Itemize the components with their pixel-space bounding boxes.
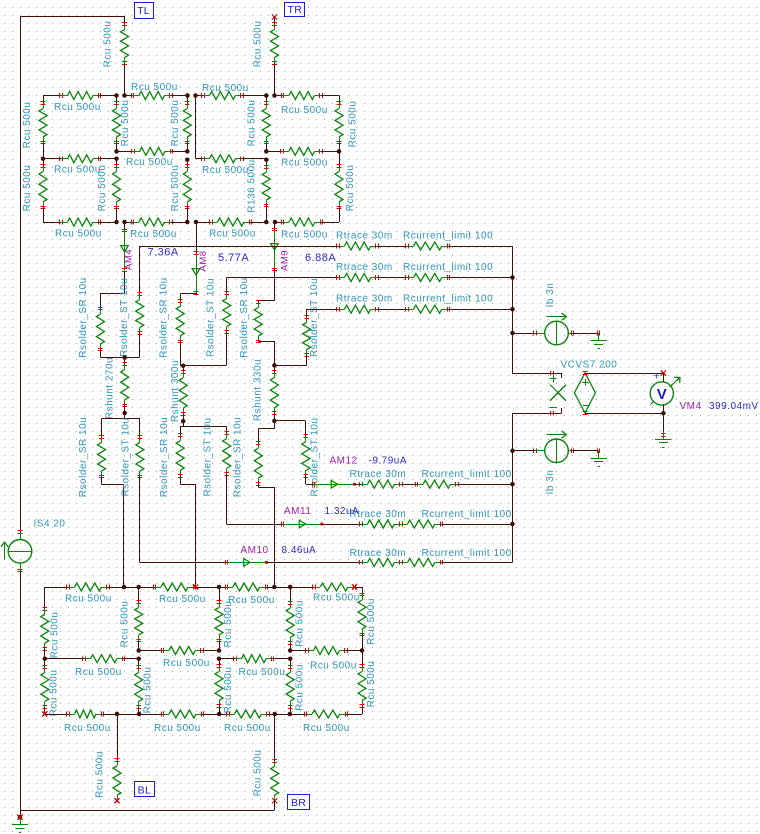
wire bottom rail bbox=[20, 810, 275, 812]
svg-text:Rcu 500u: Rcu 500u bbox=[366, 661, 377, 708]
svg-text:Rcu 500u: Rcu 500u bbox=[223, 667, 234, 714]
resistor Rsolder_SR 10u (col1 upper-left) bbox=[78, 277, 104, 357]
resistor Rcu 500u (col B upper) bbox=[22, 96, 47, 159]
junction rail row3 bbox=[510, 307, 515, 312]
resistor Rcu 500u (row3 d) bbox=[275, 218, 339, 241]
value 6.88A bbox=[305, 252, 336, 264]
wire Ib top to ground bbox=[572, 331, 599, 336]
label VM4 bbox=[680, 401, 702, 412]
wire right rail upper bbox=[512, 246, 514, 373]
junction bgrid T E bbox=[272, 585, 292, 590]
svg-text:Rcu 500u: Rcu 500u bbox=[75, 667, 122, 678]
svg-text:Rcu 500u: Rcu 500u bbox=[130, 229, 177, 240]
label BR column resistor bbox=[253, 750, 264, 797]
svg-text:7.36A: 7.36A bbox=[148, 247, 179, 259]
resistor Rsolder_ST 10u (col3 lower-right) bbox=[302, 417, 321, 496]
junction rail AM12 bbox=[510, 482, 515, 487]
svg-text:Rshunt 270u: Rshunt 270u bbox=[105, 357, 116, 419]
wire AM4 to col1 bbox=[101, 271, 125, 294]
svg-text:Rcu 500u: Rcu 500u bbox=[65, 594, 112, 605]
svg-text:VM4: VM4 bbox=[680, 401, 702, 412]
resistor Rcu 500u (col F upper) bbox=[335, 96, 359, 152]
resistor Rcu 500u (row2 c) bbox=[196, 155, 267, 176]
value 5.77A bbox=[218, 252, 249, 264]
label Rtrace 30m (AM11) bbox=[350, 509, 407, 520]
vcvs VCVS7 control plus bbox=[549, 375, 556, 382]
resistor Rsolder_ST 10u (col2 lower-right) bbox=[203, 417, 231, 524]
wire col1 upper-right to node bbox=[125, 357, 140, 359]
wire left rail lower bbox=[20, 571, 22, 810]
node X bgrid T col2 bbox=[193, 584, 219, 589]
resistor Rcu 500u (TR column) bbox=[253, 17, 279, 96]
svg-text:Rcu 500u: Rcu 500u bbox=[209, 229, 256, 240]
svg-text:Rcu 500u: Rcu 500u bbox=[313, 593, 360, 604]
resistor Rcu 500u (bgrid T c) bbox=[219, 583, 275, 606]
resistor Rcu 500u (col D upper) bbox=[170, 96, 191, 152]
svg-text:Rcu 500u: Rcu 500u bbox=[224, 723, 271, 734]
resistor Rcu 500u (bgrid vD upper) bbox=[215, 587, 234, 651]
vcvs VCVS7 200 diamond bbox=[561, 359, 618, 413]
svg-text:Rcu 500u: Rcu 500u bbox=[95, 751, 106, 798]
svg-text:Rcu 500u: Rcu 500u bbox=[295, 664, 306, 711]
svg-text:Rcu 500u: Rcu 500u bbox=[310, 661, 357, 672]
svg-text:399.04mV: 399.04mV bbox=[709, 401, 759, 412]
resistor Rcu 500u (bgrid M1 right) bbox=[290, 647, 362, 672]
wire col2 upper-left to node bbox=[180, 365, 183, 367]
ground (bottom left) bbox=[12, 810, 28, 833]
svg-text:Rsolder_SR 10u: Rsolder_SR 10u bbox=[159, 417, 170, 497]
ground (Ib bottom) bbox=[590, 451, 606, 467]
resistor Rcu 500u (row1 c) bbox=[196, 83, 267, 100]
resistor Rsolder_SR 10u (col1 lower-left) bbox=[78, 417, 106, 497]
wire col2 T-split bbox=[180, 421, 227, 426]
resistor Rcu 500u (row2 mid) bbox=[117, 147, 188, 168]
resistor Rsolder_ST 10u (col1 upper-right) bbox=[119, 246, 144, 358]
svg-text:Rcu 500u: Rcu 500u bbox=[126, 157, 173, 168]
resistor Rcu 500u (bgrid B d) bbox=[290, 710, 362, 734]
junction col3 mid bbox=[272, 363, 277, 368]
label AM10 bbox=[241, 545, 269, 556]
resistor Rsolder_ST 10u (col2 upper-right) bbox=[206, 278, 231, 366]
svg-text:Rcu 500u: Rcu 500u bbox=[253, 750, 264, 797]
label Rtrace 30m (AM10) bbox=[350, 548, 407, 559]
svg-text:Rcu 500u: Rcu 500u bbox=[281, 158, 328, 169]
svg-text:Rcu 500u: Rcu 500u bbox=[50, 612, 61, 659]
wire VCVS output bottom bbox=[583, 412, 664, 415]
resistor Rcu 500u (bgrid B a) bbox=[45, 710, 117, 734]
resistor Rcu 500u (row3 b) bbox=[125, 218, 188, 240]
svg-text:Rcu 500u: Rcu 500u bbox=[163, 658, 210, 669]
node BL bbox=[135, 782, 155, 797]
svg-text:Rcu 500u: Rcu 500u bbox=[281, 105, 328, 116]
resistor Rcu 500u (bgrid T b) bbox=[139, 583, 206, 605]
value 8.46uA bbox=[282, 545, 317, 556]
resistor Rtrace 30m (sense row1) bbox=[336, 231, 393, 251]
resistor Rcu 500u (bgrid M2 left) bbox=[45, 655, 139, 678]
svg-text:AM8: AM8 bbox=[198, 250, 209, 271]
junction rail row2 bbox=[510, 275, 515, 280]
svg-text:Rcu 500u: Rcu 500u bbox=[120, 601, 131, 648]
resistor Rcu 500u (TL column) bbox=[103, 16, 129, 96]
resistor Rcu 500u (bgrid T a) bbox=[45, 583, 125, 605]
wire AM9 to col3 bbox=[259, 270, 275, 301]
wire VM to ground bbox=[661, 413, 666, 436]
svg-text:AM9: AM9 bbox=[280, 250, 291, 271]
resistor Rsolder_ST 10u (col3 upper-right) bbox=[303, 278, 320, 365]
svg-text:Rsolder_ST 10u: Rsolder_ST 10u bbox=[120, 417, 131, 496]
junction dots row2 bbox=[41, 149, 342, 162]
svg-text:Rshunt 300u: Rshunt 300u bbox=[170, 360, 181, 422]
wire VCVS control top bbox=[513, 371, 562, 378]
wire VCVS output top bbox=[583, 371, 666, 376]
junction bgrid T D2 bbox=[217, 585, 222, 590]
svg-text:Rcu 500u: Rcu 500u bbox=[253, 21, 264, 68]
junction dots row1 bbox=[114, 93, 277, 98]
ground (Ib top) bbox=[590, 333, 606, 349]
svg-text:TR: TR bbox=[287, 4, 302, 16]
svg-text:AM11: AM11 bbox=[284, 506, 311, 517]
svg-text:Rsolder_SR 10u: Rsolder_SR 10u bbox=[78, 277, 89, 357]
junction rail AM11 bbox=[510, 522, 515, 527]
current source IS4 20 bbox=[1, 519, 65, 572]
resistor Rcurrent_limit 100 (sense row2) bbox=[403, 262, 493, 282]
wire sense row3 bbox=[307, 309, 338, 311]
junction rail Ib bottom bbox=[510, 449, 515, 454]
junction col1 low bbox=[122, 411, 127, 416]
svg-text:Rcu 500u: Rcu 500u bbox=[97, 165, 108, 212]
svg-text:AM12: AM12 bbox=[330, 456, 358, 467]
resistor Rcu 500u (bgrid vF lower) bbox=[358, 651, 377, 715]
wire row2 mid bbox=[377, 277, 407, 279]
resistor Rcu 500u (bgrid vC lower) bbox=[135, 659, 154, 714]
svg-text:Rcu 500u: Rcu 500u bbox=[303, 723, 350, 734]
resistor Rcu 500u (row2 left) bbox=[43, 155, 117, 176]
svg-text:Rcu 500u: Rcu 500u bbox=[170, 100, 181, 147]
svg-text:6.88A: 6.88A bbox=[305, 252, 336, 264]
wire Ib bottom to ground bbox=[572, 449, 599, 454]
ground (VM4) bbox=[655, 432, 671, 448]
wire row3 to rail bbox=[448, 309, 512, 311]
svg-text:Rcurrent_limit 100: Rcurrent_limit 100 bbox=[422, 548, 512, 559]
node X bgrid B left bbox=[42, 711, 47, 716]
svg-text:Rcurrent_limit 100: Rcurrent_limit 100 bbox=[422, 469, 512, 480]
resistor Rsolder_ST 10u (col1 lower-right) bbox=[120, 417, 144, 562]
junction dots row3 bbox=[114, 220, 277, 225]
resistor Rcu 500u (row3 a) bbox=[43, 218, 117, 240]
resistor Rcu 500u (bgrid B b) bbox=[139, 710, 219, 734]
svg-text:Rcu 500u: Rcu 500u bbox=[54, 165, 101, 176]
svg-text:Rcu 500u: Rcu 500u bbox=[348, 101, 359, 148]
resistor Rcu 500u (bgrid T d) bbox=[290, 583, 362, 604]
wire VCVS control bottom bbox=[513, 408, 562, 415]
resistor Rsolder_SR 10u (col3 upper-left) bbox=[239, 277, 262, 357]
ammeter AM8 bbox=[192, 222, 209, 295]
label Rcurrent_limit 100 (AM12) bbox=[422, 469, 512, 480]
label Rcurrent_limit 100 (AM11) bbox=[422, 509, 512, 520]
wire col1 upper-left to node bbox=[100, 357, 124, 359]
svg-text:Rtrace 30m: Rtrace 30m bbox=[336, 231, 393, 242]
svg-text:Rsolder_SR 10u: Rsolder_SR 10u bbox=[78, 417, 89, 497]
wire col1 T-split bbox=[102, 414, 140, 419]
svg-text:Rcu 500u: Rcu 500u bbox=[154, 723, 201, 734]
svg-text:Rsolder_ST 10u: Rsolder_ST 10u bbox=[203, 417, 214, 496]
resistor Rcu 500u (row2 d) bbox=[266, 147, 339, 168]
svg-text:Rtrace 30m: Rtrace 30m bbox=[350, 469, 407, 480]
wire col2 upper-right to node bbox=[183, 365, 227, 367]
svg-text:Rcu 500u: Rcu 500u bbox=[281, 230, 328, 241]
resistor Rcu 500u (bgrid B c) bbox=[219, 710, 275, 734]
wire sense row2 bbox=[227, 277, 338, 279]
svg-text:Rcu 500u: Rcu 500u bbox=[22, 102, 33, 149]
wire col3 upper-right to node bbox=[274, 365, 306, 367]
ammeter AM12 row bbox=[306, 480, 513, 488]
wire col D2 bbox=[195, 96, 197, 159]
value 1.32uA bbox=[325, 506, 360, 517]
ammeter AM10 row bbox=[140, 558, 513, 566]
wire to Ib bottom bbox=[513, 449, 546, 454]
svg-text:Rsolder_SR 10u: Rsolder_SR 10u bbox=[239, 277, 250, 357]
svg-text:Ib 3n: Ib 3n bbox=[545, 470, 556, 495]
svg-text:AM10: AM10 bbox=[241, 545, 269, 556]
svg-text:Rtrace 30m: Rtrace 30m bbox=[350, 548, 407, 559]
wire bgrid T cd bbox=[274, 587, 290, 589]
resistor Rcurrent_limit 100 (sense row1) bbox=[403, 231, 493, 251]
svg-text:Rshunt 330u: Rshunt 330u bbox=[253, 359, 264, 421]
resistor Rsolder_SR 10u (col2 lower-left) bbox=[159, 417, 184, 497]
wire col3 feed to bottom grid bbox=[259, 488, 275, 587]
svg-text:Rcu 500u: Rcu 500u bbox=[345, 165, 356, 212]
vcvs VCVS7 control minus bbox=[550, 407, 557, 409]
resistor Rcu 500u (row3 c) bbox=[196, 218, 266, 240]
label Rtrace 30m (AM12) bbox=[350, 469, 407, 480]
resistor Rcu 500u (bgrid vC upper) bbox=[120, 587, 143, 651]
ammeter AM11 row bbox=[227, 520, 513, 528]
junction col3 low bbox=[272, 419, 277, 424]
resistor Rcu 500u (col C upper) bbox=[113, 96, 132, 152]
svg-text:Rcurrent_limit 100: Rcurrent_limit 100 bbox=[403, 231, 493, 242]
svg-text:Rcu 500u: Rcu 500u bbox=[64, 723, 111, 734]
resistor Rsolder_SR 10u (col2 upper-left) bbox=[159, 277, 185, 365]
resistor Rsolder_SR 10u (col3 lower-left) bbox=[233, 417, 263, 497]
wire bgrid B ab bbox=[117, 714, 139, 716]
resistor Rtrace 30m (sense row3) bbox=[336, 294, 393, 314]
junction bgrid B E bbox=[272, 712, 292, 717]
resistor Rshunt 270u bbox=[105, 357, 129, 419]
junction col2 mid bbox=[181, 363, 186, 368]
wire bgrid B cd bbox=[275, 714, 290, 716]
svg-text:Rcu 500u: Rcu 500u bbox=[239, 667, 286, 678]
resistor Rcu 500u (bgrid vL lower) bbox=[41, 659, 60, 717]
resistor Rcu 500u (bgrid M1 left) bbox=[139, 647, 219, 670]
resistor Rcu 500u (col E upper) bbox=[247, 96, 271, 152]
wire top-left bbox=[21, 17, 125, 533]
vcvs VCVS7 control X bbox=[550, 385, 566, 401]
svg-text:Rtrace 30m: Rtrace 30m bbox=[336, 294, 393, 305]
node TL bbox=[135, 3, 154, 19]
svg-text:Rcu 500u: Rcu 500u bbox=[247, 100, 258, 147]
resistor Rcu 500u (col C lower) bbox=[97, 159, 121, 222]
svg-text:Rcu 500u: Rcu 500u bbox=[228, 595, 275, 606]
voltmeter VM4 bbox=[650, 372, 680, 414]
wire col2 feed to bottom grid bbox=[181, 485, 196, 588]
junction VM bottom bbox=[661, 411, 666, 416]
svg-text:IS4 20: IS4 20 bbox=[34, 519, 66, 530]
junction col1 mid bbox=[122, 355, 127, 360]
svg-text:Rcu 500u: Rcu 500u bbox=[202, 165, 249, 176]
label Rcurrent_limit 100 (AM10) bbox=[422, 548, 512, 559]
svg-text:Rsolder_SR 10u: Rsolder_SR 10u bbox=[233, 417, 244, 497]
ammeter AM4 bbox=[121, 222, 135, 272]
svg-text:Rcu 500u: Rcu 500u bbox=[295, 600, 306, 647]
svg-text:Rtrace 30m: Rtrace 30m bbox=[336, 262, 393, 273]
svg-text:5.77A: 5.77A bbox=[218, 252, 249, 264]
svg-text:Rcu 500u: Rcu 500u bbox=[223, 601, 234, 648]
resistor Rcu 500u (col D lower) bbox=[170, 160, 191, 222]
resistor R136 500u (col E lower) bbox=[247, 159, 271, 222]
svg-text:Rcurrent_limit 100: Rcurrent_limit 100 bbox=[403, 262, 493, 273]
svg-text:Rcu 500u: Rcu 500u bbox=[120, 100, 131, 147]
svg-text:Rcu 500u: Rcu 500u bbox=[143, 667, 154, 714]
wire row1 to rail bbox=[448, 246, 512, 248]
junction bgrid T bbox=[122, 585, 141, 590]
wire sense row1 bbox=[140, 246, 338, 248]
svg-text:V: V bbox=[657, 386, 667, 403]
resistor Rcu 500u (bgrid vL upper) bbox=[41, 587, 61, 659]
resistor Rcu 500u (col B lower) bbox=[22, 159, 47, 222]
resistor Rcu 500u (row1 b) bbox=[125, 82, 188, 100]
resistor Rcu 500u (BR column) bbox=[271, 714, 279, 810]
svg-text:-9.79uA: -9.79uA bbox=[369, 456, 408, 467]
svg-text:Rcu 500u: Rcu 500u bbox=[54, 102, 101, 113]
svg-text:TL: TL bbox=[137, 5, 150, 17]
svg-text:Rcu 500u: Rcu 500u bbox=[49, 670, 60, 717]
wire col1 feed to bottom grid bbox=[102, 485, 124, 588]
value 399.04mV bbox=[709, 401, 759, 412]
svg-text:VCVS7 200: VCVS7 200 bbox=[561, 359, 618, 370]
svg-text:Rsolder_ST 10u: Rsolder_ST 10u bbox=[119, 278, 130, 357]
resistor Rcu 500u (bgrid M2 right) bbox=[219, 655, 290, 678]
wire bgrid T ab bbox=[124, 587, 139, 589]
current source Ib 3n (bottom) bbox=[545, 431, 574, 494]
resistor Rshunt 330u bbox=[253, 359, 279, 421]
wire row2 to rail bbox=[448, 277, 512, 279]
junction bgrid B C bbox=[115, 712, 142, 717]
ammeter AM9 bbox=[271, 222, 291, 271]
junction col2 low bbox=[181, 419, 186, 424]
svg-text:8.46uA: 8.46uA bbox=[282, 545, 317, 556]
label AM11 bbox=[284, 506, 311, 517]
wire to Ib top bbox=[513, 331, 546, 336]
resistor Rcu 500u (bgrid vE lower) bbox=[286, 659, 305, 714]
svg-text:Rcu 500u: Rcu 500u bbox=[22, 165, 33, 212]
resistor Rtrace 30m (sense row2) bbox=[336, 262, 393, 282]
current source Ib 3n (top) bbox=[545, 283, 574, 345]
resistor Rcu 500u (row1 d) bbox=[275, 92, 340, 117]
wire col3 right split bbox=[275, 420, 306, 422]
junction rail Ib top bbox=[510, 331, 515, 336]
svg-text:Rsolder_ST 10u: Rsolder_ST 10u bbox=[309, 278, 320, 357]
svg-text:Rcu 500u: Rcu 500u bbox=[131, 82, 178, 93]
resistor Rcu 500u (row1 a) bbox=[43, 92, 117, 114]
junction dots bgrid M bbox=[43, 648, 365, 661]
resistor Rcu 500u (bgrid vD lower) bbox=[215, 659, 234, 714]
svg-text:R136 500u: R136 500u bbox=[247, 159, 258, 212]
junction bgrid B D bbox=[217, 712, 222, 717]
svg-text:Rcu 500u: Rcu 500u bbox=[170, 165, 181, 212]
wire row3 mid bbox=[377, 309, 407, 311]
svg-text:Rsolder_SR 10u: Rsolder_SR 10u bbox=[159, 277, 170, 357]
svg-text:BL: BL bbox=[138, 784, 151, 796]
resistor Rcu 500u (bgrid vF upper) bbox=[358, 587, 377, 651]
resistor Rcu 500u (bgrid vE upper) bbox=[286, 587, 305, 651]
svg-text:1.32uA: 1.32uA bbox=[325, 506, 360, 517]
resistor Rshunt 300u bbox=[170, 360, 187, 422]
wire right rail lower bbox=[512, 413, 514, 562]
svg-text:Rcurrent_limit 100: Rcurrent_limit 100 bbox=[422, 509, 512, 520]
svg-text:Rcu 500u: Rcu 500u bbox=[159, 594, 206, 605]
svg-text:+: + bbox=[654, 372, 660, 383]
wire col3 upper-left to node bbox=[259, 342, 275, 366]
svg-text:Rcu 500u: Rcu 500u bbox=[366, 598, 377, 645]
node BR bbox=[288, 795, 310, 810]
wire row1 mid bbox=[377, 246, 407, 248]
wire col3 left split bbox=[259, 421, 275, 429]
svg-text:Rcurrent_limit 100: Rcurrent_limit 100 bbox=[403, 294, 493, 305]
label AM12 bbox=[330, 456, 358, 467]
svg-text:AM4: AM4 bbox=[124, 249, 135, 270]
resistor Rcu 500u (col F lower) bbox=[335, 151, 356, 222]
svg-text:Rcu 500u: Rcu 500u bbox=[202, 83, 249, 94]
svg-text:Rcu 500u: Rcu 500u bbox=[55, 229, 102, 240]
svg-text:Ib 3n: Ib 3n bbox=[545, 283, 556, 308]
node TR bbox=[272, 3, 305, 25]
wire AM8 to col2 bbox=[181, 293, 197, 294]
svg-text:Rcu 500u: Rcu 500u bbox=[103, 21, 114, 68]
value -9.79uA bbox=[369, 456, 408, 467]
resistor Rcurrent_limit 100 (sense row3) bbox=[403, 294, 493, 314]
resistor Rcu 500u (BL column) bbox=[95, 714, 122, 803]
svg-text:BR: BR bbox=[291, 797, 306, 809]
value 7.36A bbox=[148, 247, 179, 259]
svg-text:Rsolder_ST 10u: Rsolder_ST 10u bbox=[206, 278, 217, 357]
